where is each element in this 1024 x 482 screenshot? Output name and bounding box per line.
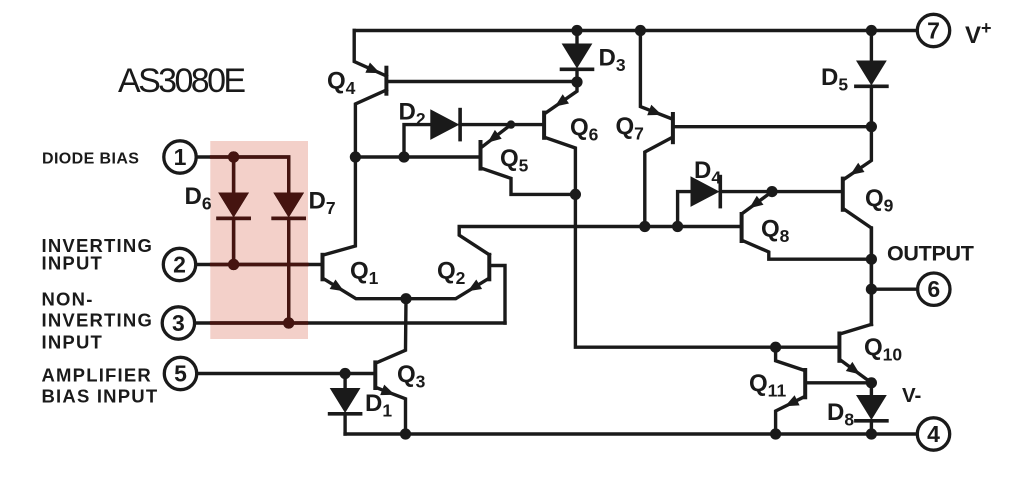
- node D6 anode on diode bias row: [228, 151, 239, 162]
- wire bottom rail (V- / pin 4): [345, 432, 917, 435]
- highlight panel behind D6-D7: [210, 141, 308, 339]
- node D4 anode branch on Q8 base row: [672, 221, 683, 232]
- transistor Q2 emitter arrow: [468, 280, 482, 292]
- transistor Q9 base bar: [841, 179, 845, 210]
- transistor Q8 base bar: [740, 214, 744, 241]
- transistor Q9 emitter arrow: [850, 163, 864, 175]
- svg-text:6: 6: [927, 276, 940, 302]
- diode D5: [870, 31, 873, 62]
- svg-text:2: 2: [173, 252, 186, 278]
- transistor Q1 emitter arrow: [330, 280, 344, 292]
- wire D2 cathode to Q6 base: [460, 123, 542, 126]
- pin 3 (NON-INVERTING INPUT): [162, 307, 194, 339]
- wire D4 cathode to Q9 base: [721, 190, 841, 193]
- svg-text:4: 4: [927, 421, 940, 447]
- transistor Q6 base bar: [542, 113, 546, 138]
- node D7 cathode maroon: [283, 317, 294, 328]
- wire D4 anode branch: [678, 192, 691, 227]
- pin 4 (V-): [917, 418, 949, 450]
- wire Q6 collector down and across to Q10 base: [546, 138, 837, 347]
- wire Q9 emitter: [845, 127, 872, 179]
- diode D3: [575, 31, 578, 45]
- wire Q5 collector: [483, 169, 576, 195]
- node D2 cathode / Q5 emitter / Q6 base: [507, 120, 515, 128]
- wire Q6 emitter to D3 node: [546, 82, 577, 113]
- wire inverting row maroon segment: [212, 263, 308, 266]
- transistor Q7 emitter arrow: [647, 105, 662, 116]
- wire diode bias row maroon: [212, 157, 289, 193]
- diode D6 maroon: [232, 157, 235, 193]
- node output to pin 6: [866, 284, 877, 295]
- wire Q7 emitter from top rail: [640, 31, 671, 119]
- transistor Q1 base bar: [321, 255, 325, 279]
- svg-text:7: 7: [927, 18, 940, 44]
- wire Q4 collector down to Q1 collector: [324, 90, 386, 255]
- node Q8 collector on output line: [866, 254, 877, 265]
- node D8 cathode on bottom rail: [866, 428, 877, 439]
- transistor Q3 base bar: [373, 362, 377, 388]
- pin 2 (INVERTING INPUT): [163, 248, 195, 280]
- node D3 cathode / Q4 base / Q6 emitter: [571, 76, 582, 87]
- pin 5 (AMPLIFIER BIAS INPUT): [164, 357, 196, 389]
- wire bias row to Q5 base: [355, 155, 478, 158]
- wire Q2 emitter to common node: [406, 279, 487, 298]
- node Q1-Q2 emitter junction: [400, 293, 411, 304]
- transistor Q7 base bar: [671, 114, 675, 142]
- diode D7: [274, 193, 303, 217]
- node D5 cathode / Q7 base / Q9 emitter: [866, 121, 877, 132]
- wire output line Q9 to Q10: [870, 228, 873, 324]
- diode D7 maroon: [274, 193, 303, 217]
- wire Q7 base to D5 cathode node: [675, 125, 872, 128]
- node D1 anode on bias row: [340, 368, 351, 379]
- svg-text:INVERTING: INVERTING: [42, 310, 154, 331]
- svg-text:NON-: NON-: [42, 289, 94, 310]
- pin 6 (OUTPUT): [918, 273, 950, 305]
- diode D2: [431, 110, 459, 139]
- diode D6: [232, 157, 235, 193]
- transistor Q10 base bar: [837, 334, 841, 361]
- pin 7 (V+): [917, 14, 949, 46]
- node D7 cathode on non-inverting row: [283, 317, 294, 328]
- diode D8: [870, 383, 873, 396]
- transistor Q3 emitter arrow: [380, 385, 395, 396]
- node D6 cathode maroon: [228, 259, 239, 270]
- wire Q7 collector down to Q8 base row: [645, 138, 671, 227]
- wire Q11 base to Q10 emitter node: [807, 381, 871, 384]
- wire Q5 emitter: [483, 125, 512, 147]
- node Q5 collector joins Q6 collector line: [570, 189, 581, 200]
- wire emitter junction down to Q3 collector: [377, 299, 406, 363]
- wire diode bias row (pin 1 to D7): [196, 157, 288, 193]
- node D2 branch on bias row: [398, 151, 409, 162]
- transistor Q4 base bar: [384, 68, 388, 94]
- svg-text:AS3080E: AS3080E: [118, 62, 245, 100]
- wire Q10 emitter: [841, 361, 871, 383]
- node Q7 collector on Q8 base row: [639, 221, 650, 232]
- wire Q4 base to D3 cathode node: [388, 80, 577, 83]
- wire Q3 emitter to bottom rail: [377, 388, 405, 434]
- wire non-inverting row maroon segment: [212, 321, 307, 324]
- node Q7 emitter on top rail: [635, 25, 646, 36]
- wire V+ top rail: [354, 29, 917, 32]
- svg-text:V-: V-: [902, 384, 921, 407]
- wire Q2 base stub to non-inverting row: [491, 266, 505, 324]
- diode D4: [691, 177, 719, 206]
- svg-text:3: 3: [172, 310, 185, 336]
- svg-text:INPUT: INPUT: [42, 253, 104, 274]
- transistor Q8 emitter arrow: [749, 196, 763, 209]
- node Q11 emitter on bottom rail: [770, 428, 781, 439]
- transistor Q5 emitter arrow: [488, 130, 502, 143]
- wire Q8 collector to output line: [744, 241, 872, 259]
- transistor Q11 base bar: [803, 370, 807, 397]
- svg-text:DIODE BIAS: DIODE BIAS: [42, 151, 139, 168]
- transistor Q10 emitter arrow: [846, 362, 860, 375]
- node Q3 emitter on bottom rail: [400, 428, 411, 439]
- wire Q1 emitter to common node: [325, 279, 407, 298]
- wire Q8 emitter: [744, 192, 772, 213]
- svg-text:5: 5: [174, 361, 187, 387]
- node Q4-Q1 junction on bias row: [350, 151, 361, 162]
- transistor Q5 base bar: [479, 142, 483, 169]
- pin 1 (DIODE BIAS): [164, 141, 196, 173]
- svg-text:AMPLIFIER: AMPLIFIER: [42, 365, 153, 386]
- wire output stub to pin 6: [871, 288, 916, 291]
- transistor Q4 emitter arrow: [365, 63, 380, 74]
- transistor Q11 emitter arrow: [785, 395, 800, 406]
- wire non-inverting input row (pin 3): [195, 321, 505, 324]
- wire D2 anode branch: [404, 125, 431, 157]
- node Q10 emitter / Q11 base / D8 anode: [866, 377, 877, 388]
- svg-text:OUTPUT: OUTPUT: [887, 242, 974, 266]
- wire Q11 collector: [776, 347, 804, 370]
- transistor Q6 emitter arrow: [555, 94, 569, 106]
- wire amplifier bias row (pin 5 to Q3 base): [197, 372, 373, 375]
- svg-text:BIAS INPUT: BIAS INPUT: [42, 386, 159, 407]
- node D6 cathode on inverting row: [228, 259, 239, 270]
- node D3 anode on top rail: [571, 25, 582, 36]
- wire Q9 collector to output line: [845, 210, 872, 325]
- wire Q2 collector row to Q8 base: [459, 227, 739, 255]
- svg-text:1: 1: [174, 144, 187, 170]
- wire Q4 emitter from top rail: [354, 31, 386, 77]
- wire inverting input row (pin 2 to Q1 base): [196, 263, 321, 266]
- node D5 anode on top rail: [866, 25, 877, 36]
- diode D1: [343, 374, 346, 389]
- node D4 cathode / Q8 emitter / Q9 base: [766, 186, 777, 197]
- node D6 anode maroon: [228, 151, 239, 162]
- wire Q11 emitter to bottom rail: [776, 397, 804, 434]
- wire Q10 collector to output line: [841, 324, 871, 333]
- transistor Q2 base bar: [487, 255, 491, 279]
- svg-text:INPUT: INPUT: [42, 332, 104, 353]
- node Q11 collector on Q10 base row: [770, 342, 781, 353]
